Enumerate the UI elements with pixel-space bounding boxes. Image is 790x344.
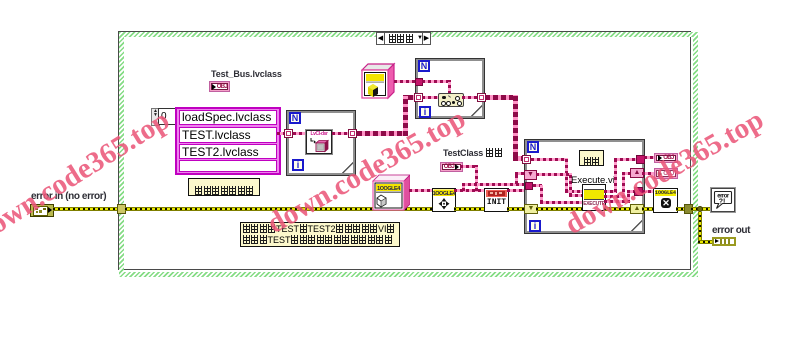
wire (class array) vertical drop to for3 xyxy=(513,95,518,157)
wire cube -> for2 tunnel xyxy=(394,80,415,83)
close reference vi xyxy=(653,188,678,213)
right tunnel for2 xyxy=(477,93,486,102)
INIT vi xyxy=(484,188,509,212)
OBJ control (TestClass) xyxy=(440,162,463,172)
wire compass -> INIT xyxy=(454,189,484,192)
svg-text:1OOGLE4: 1OOGLE4 xyxy=(433,191,456,197)
wire for3 index tunnel right xyxy=(531,158,568,161)
left tunnel xyxy=(284,129,293,138)
OBJ indicator 2 xyxy=(654,168,678,179)
wire shift register to OBJ indicator 2 xyxy=(642,172,654,175)
shift register right pink xyxy=(630,168,644,178)
error out indicator xyxy=(712,237,736,246)
wire class INIT -> for3 filled tunnel xyxy=(507,189,525,192)
label Execute.vi xyxy=(571,175,615,186)
wire error branch down xyxy=(698,212,702,242)
wire from left shift register xyxy=(536,173,572,176)
svg-text:?!: ?! xyxy=(719,199,726,206)
shift register left pink xyxy=(524,170,537,180)
index tunnel left xyxy=(522,155,531,164)
wire icon to right tunnel xyxy=(332,132,348,135)
wire index tunnel to dots icon xyxy=(422,96,438,99)
filled tunnel right 1 xyxy=(636,155,645,164)
index tunnel left xyxy=(414,93,423,102)
wire junction dot xyxy=(697,206,703,212)
wire Execute output 1 xyxy=(604,190,617,193)
wire (class array) into for2 index tunnel xyxy=(408,95,415,100)
i xyxy=(292,159,304,171)
shift register left error xyxy=(524,204,538,214)
filled tunnel left xyxy=(525,182,533,190)
array constant of class paths xyxy=(151,108,160,126)
wire Execute output 2 xyxy=(604,195,625,198)
wire tunnel to close-reference vi xyxy=(642,190,653,193)
3D class icon (TOGGLE cube constant) xyxy=(372,174,410,212)
wire from OBJ control, horizontal xyxy=(460,165,478,168)
wire into Execute input 3 xyxy=(540,201,582,204)
label error out xyxy=(712,225,750,236)
label TestClass input xyxy=(443,148,502,158)
i xyxy=(529,220,541,232)
wire vertical down to Execute input 1 xyxy=(565,158,568,192)
error wire compass->INIT xyxy=(454,207,484,211)
filled tunnel right 2 xyxy=(634,187,643,196)
label Test_Bus.lvclass xyxy=(211,69,282,79)
wire vertical up to right shift register xyxy=(622,172,625,198)
watermark 1 xyxy=(0,106,175,248)
wire vertical down to Execute input 3 xyxy=(540,185,543,203)
case structure (no error) xyxy=(118,31,691,270)
right tunnel for1 xyxy=(348,129,357,138)
for loop 1 xyxy=(287,111,355,175)
class constant OBJ (Test_Bus) xyxy=(209,81,230,92)
wire error Execute to right shift register xyxy=(604,207,632,211)
for loop 3 xyxy=(525,140,644,233)
wire error INIT -> for3 shift register xyxy=(507,207,525,211)
wire error into error out indicator xyxy=(698,240,712,244)
wire Execute output 3 xyxy=(604,200,630,203)
comment box (default has TEST & TEST2...) xyxy=(240,222,400,247)
N xyxy=(527,141,539,153)
wire from cube tunnel inside for2 xyxy=(422,80,450,83)
wire into for3 left shift register xyxy=(515,172,526,175)
wire error to close-reference vi xyxy=(642,207,653,211)
wire class bus to for3 filled tunnel xyxy=(462,183,525,186)
wire: array to for1 xyxy=(277,132,286,135)
VI icon LvCl-dsr xyxy=(306,130,332,154)
wire (class array) into for3 index tunnel xyxy=(513,156,524,161)
OBJ indicator 1 xyxy=(654,153,678,163)
wire branch up to for3 shift register xyxy=(515,172,518,184)
wire (class array) vertical riser to for2 xyxy=(403,95,408,136)
wire error tunnel to error handler xyxy=(691,207,711,211)
label: error in (no error) xyxy=(31,191,106,202)
shift register right error xyxy=(630,204,644,214)
filled tunnel (cube input) xyxy=(415,78,423,86)
wire from left filled tunnel xyxy=(533,184,542,187)
watermark 2 xyxy=(263,104,471,239)
wire vertical down to Execute input 2 xyxy=(569,173,572,196)
wire inside for1 xyxy=(293,132,306,135)
for loop 2 xyxy=(416,59,484,118)
wire into Execute input 1 xyxy=(565,190,582,193)
wire 3D icon -> compass xyxy=(409,189,432,192)
N xyxy=(418,60,430,72)
wire: error in to border tunnel xyxy=(53,207,118,211)
tunnel on case border (error) xyxy=(117,204,126,214)
comment: 执行这三个程序 xyxy=(188,178,260,196)
compass icon (4-way arrows vi) xyxy=(432,188,456,212)
wire from OBJ control, vertical drop xyxy=(475,165,478,191)
wire vertical up to right filled tunnel 1 xyxy=(614,158,617,192)
simple error handler vi xyxy=(711,188,735,212)
wire (class array) for1 out, horizontal xyxy=(357,131,408,136)
wire jog up from compass branch xyxy=(462,183,465,191)
comment 执行 xyxy=(579,150,604,166)
dots icon xyxy=(438,93,464,107)
Execute vi icon xyxy=(582,184,606,211)
i xyxy=(419,106,431,118)
wire into right shift register xyxy=(622,172,632,175)
case selector label xyxy=(376,32,431,45)
error wire out of close ref xyxy=(676,207,684,211)
N xyxy=(289,112,301,124)
border tunnel right xyxy=(684,204,693,214)
wire into right filled tunnel 2 xyxy=(627,190,635,193)
wire drop into dots icon top xyxy=(448,80,451,94)
wire: error across to compass icon xyxy=(125,207,432,211)
wire into right filled tunnel 1 xyxy=(614,158,637,161)
watermark 3 xyxy=(561,105,769,240)
class cube constant (top) xyxy=(361,62,396,100)
svg-text:1OOGLE4: 1OOGLE4 xyxy=(377,186,400,192)
wire (class array) for2 out, horizontal xyxy=(485,95,517,100)
wire vertical up to right filled tunnel 2 xyxy=(627,190,630,203)
wire into Execute input 2 xyxy=(569,194,582,197)
wire error from left shift register to Execute xyxy=(536,207,583,211)
wire tunnel to OBJ indicator 1 xyxy=(644,156,654,159)
error in control xyxy=(30,204,54,217)
